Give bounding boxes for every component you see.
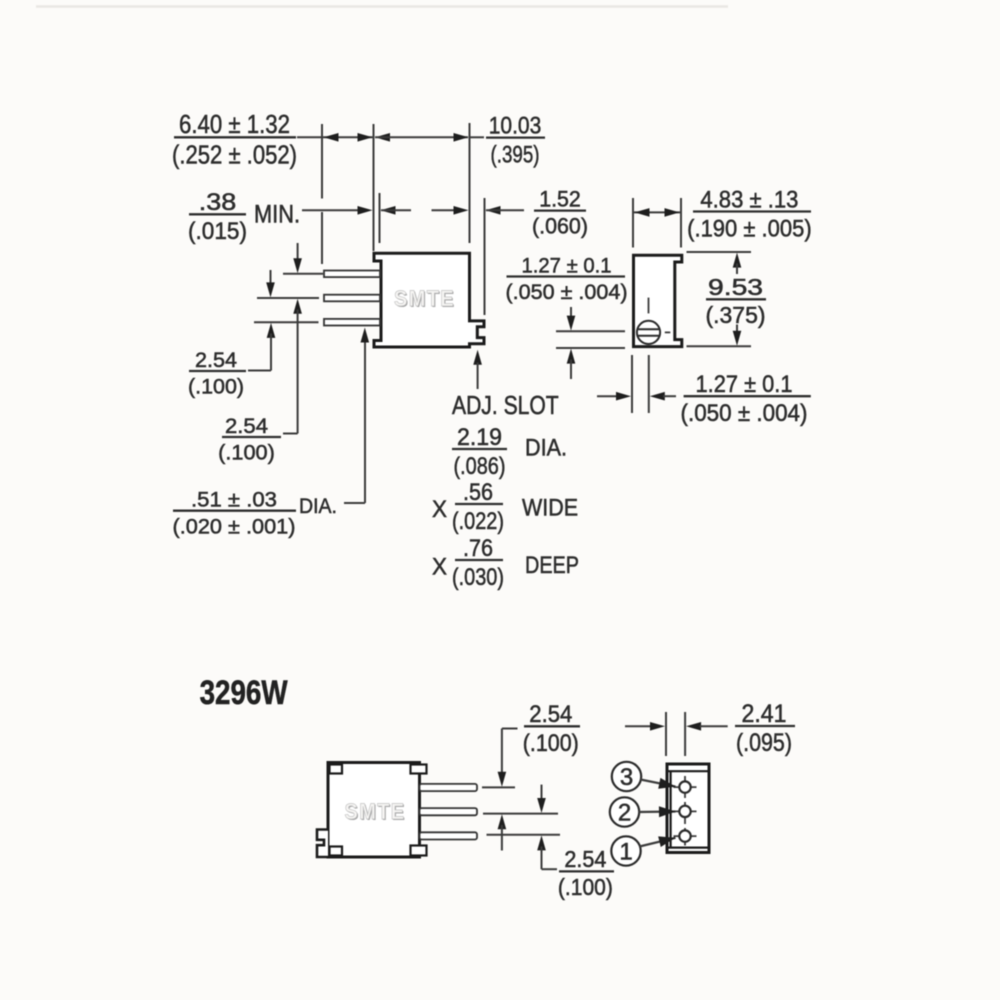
svg-text:2.54: 2.54 — [529, 701, 572, 728]
svg-text:6.40 ± 1.32: 6.40 ± 1.32 — [179, 109, 290, 139]
svg-text:DIA.: DIA. — [525, 435, 567, 462]
svg-text:2.54: 2.54 — [564, 846, 606, 872]
svg-text:3296W: 3296W — [200, 674, 289, 712]
svg-text:DEEP: DEEP — [525, 552, 579, 579]
svg-text:X: X — [432, 554, 447, 581]
svg-text:(.022): (.022) — [452, 508, 504, 535]
svg-text:1: 1 — [619, 839, 632, 866]
svg-text:(.086): (.086) — [454, 453, 506, 480]
svg-text:.56: .56 — [463, 479, 493, 506]
svg-text:2: 2 — [618, 800, 631, 827]
svg-text:(.050 ± .004): (.050 ± .004) — [681, 400, 808, 427]
svg-text:X: X — [432, 496, 447, 523]
svg-text:2.54: 2.54 — [225, 415, 268, 438]
svg-text:(.100): (.100) — [218, 441, 275, 464]
svg-text:(.020 ± .001): (.020 ± .001) — [173, 514, 296, 538]
svg-text:.51 ± .03: .51 ± .03 — [191, 488, 277, 512]
svg-text:WIDE: WIDE — [522, 495, 578, 522]
svg-text:SMTE: SMTE — [345, 799, 406, 824]
svg-text:ADJ. SLOT: ADJ. SLOT — [452, 392, 559, 420]
svg-text:3: 3 — [620, 764, 633, 791]
svg-text:(.030): (.030) — [452, 564, 504, 591]
svg-text:1.27 ± 0.1: 1.27 ± 0.1 — [522, 253, 612, 277]
svg-text:.38: .38 — [199, 189, 237, 216]
svg-text:(.190 ± .005): (.190 ± .005) — [687, 215, 812, 242]
svg-text:(.060): (.060) — [532, 214, 588, 239]
svg-text:(.252 ± .052): (.252 ± .052) — [172, 139, 297, 169]
svg-text:2.41: 2.41 — [742, 700, 787, 728]
svg-text:10.03: 10.03 — [489, 112, 542, 139]
svg-text:(.100): (.100) — [188, 375, 244, 398]
svg-text:SMTE: SMTE — [394, 286, 455, 311]
svg-text:4.83 ± .13: 4.83 ± .13 — [700, 186, 798, 213]
svg-text:(.100): (.100) — [558, 874, 613, 900]
svg-text:(.095): (.095) — [736, 729, 792, 757]
svg-text:(.015): (.015) — [188, 218, 247, 245]
svg-text:(.050 ± .004): (.050 ± .004) — [506, 280, 628, 304]
svg-text:(.375): (.375) — [706, 302, 766, 328]
svg-text:1.27 ± 0.1: 1.27 ± 0.1 — [696, 371, 793, 398]
svg-text:MIN.: MIN. — [254, 201, 300, 229]
svg-text:9.53: 9.53 — [708, 274, 763, 300]
svg-text:2.19: 2.19 — [457, 424, 502, 451]
svg-text:1.52: 1.52 — [539, 186, 581, 211]
svg-text:2.54: 2.54 — [195, 349, 237, 372]
svg-text:.76: .76 — [463, 535, 493, 562]
svg-text:DIA.: DIA. — [299, 494, 337, 518]
svg-text:(.100): (.100) — [523, 730, 579, 757]
svg-text:(.395): (.395) — [491, 141, 540, 168]
